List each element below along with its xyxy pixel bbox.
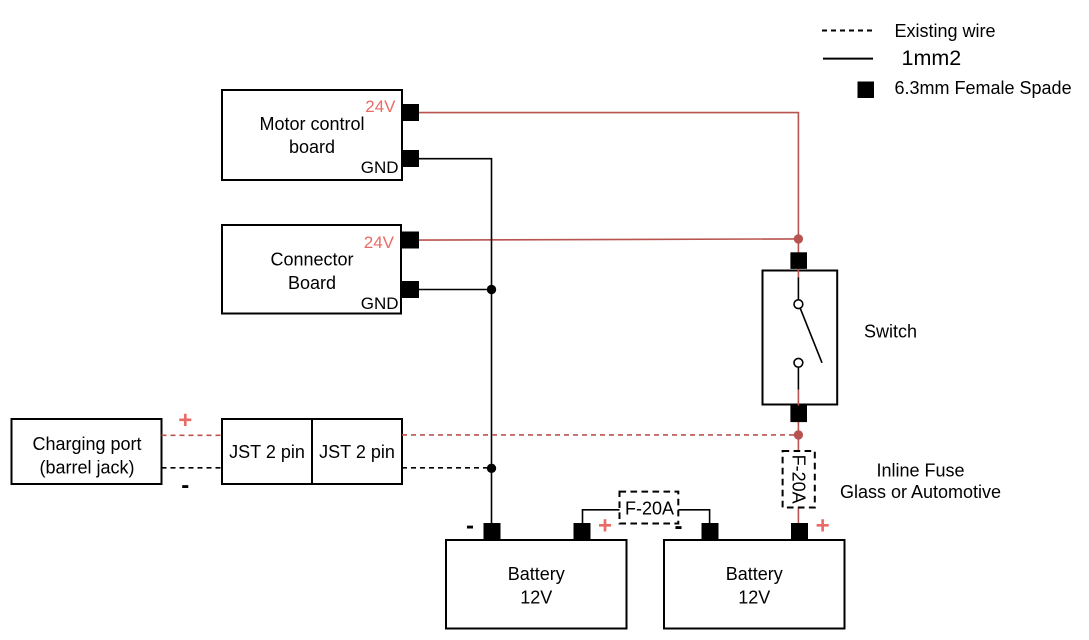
box Battery 2	[664, 540, 845, 629]
svg-text:Battery: Battery	[726, 564, 783, 584]
terminal battery1 plus (spade)	[574, 523, 591, 540]
svg-text:-: -	[675, 513, 683, 540]
svg-text:Battery: Battery	[508, 564, 565, 584]
box Switch	[763, 271, 838, 405]
svg-text:+: +	[598, 513, 612, 540]
box JST 2 pin (left)	[222, 419, 312, 484]
wire red switch to inline fuse	[797, 422, 799, 451]
pin 24V connector (spade)	[402, 232, 419, 249]
inline fuse F-20A (dashed, rotated)	[783, 451, 815, 508]
wire red dashed JST to switch bottom junction	[402, 434, 798, 436]
wire red out of switch bottom pin	[797, 390, 799, 423]
pin GND motor (spade)	[402, 150, 419, 167]
terminal battery2 minus (spade)	[702, 523, 719, 540]
fuse F-20A between batteries (dashed box)	[620, 492, 679, 524]
svg-text:-: -	[181, 472, 189, 499]
svg-text:F-20A: F-20A	[625, 499, 674, 519]
terminal battery1 minus (spade)	[484, 523, 501, 540]
wire red dashed charging to JST	[162, 434, 223, 436]
svg-text:JST 2 pin: JST 2 pin	[229, 442, 305, 462]
svg-text:JST 2 pin: JST 2 pin	[319, 442, 395, 462]
switch lead bottom	[797, 367, 799, 390]
wire red inline fuse to battery2 plus	[797, 508, 799, 524]
legend square (6.3mm Female Spade)	[858, 82, 875, 99]
wire black battery1 plus to fuse	[583, 510, 620, 523]
svg-text:(barrel jack): (barrel jack)	[39, 458, 134, 478]
svg-text:12V: 12V	[520, 588, 552, 608]
wire red into switch top pin	[797, 243, 799, 278]
svg-text:Inline Fuse: Inline Fuse	[876, 461, 964, 481]
wire black connector GND to junction	[419, 289, 492, 291]
junction node (red, switch top)	[794, 234, 803, 243]
wire black motor GND down	[419, 159, 492, 523]
svg-text:24V: 24V	[364, 233, 395, 252]
box Motor control board	[222, 90, 402, 180]
switch contact circle top	[794, 300, 803, 309]
svg-text:Board: Board	[288, 273, 336, 293]
wire black dashed charging to JST	[162, 467, 223, 469]
wire black dashed JST to GND junction	[402, 467, 492, 469]
svg-text:1mm2: 1mm2	[902, 46, 962, 70]
box JST 2 pin (right)	[312, 419, 402, 484]
svg-text:Existing wire: Existing wire	[895, 21, 996, 41]
terminal battery2 plus (spade)	[791, 523, 808, 540]
legend solid line (1mm2)	[823, 58, 873, 60]
switch contact circle bottom	[794, 358, 803, 367]
legend dashed line (Existing wire)	[822, 30, 872, 32]
pin switch top (spade)	[790, 252, 807, 269]
junction node (black, connector GND)	[487, 285, 496, 294]
svg-text:Connector: Connector	[270, 250, 353, 270]
svg-text:6.3mm Female Spade: 6.3mm Female Spade	[895, 78, 1072, 98]
svg-text:Charging port: Charging port	[32, 434, 141, 454]
svg-text:board: board	[289, 137, 335, 157]
svg-text:+: +	[178, 407, 192, 434]
junction node (red, switch bottom)	[794, 430, 803, 439]
wire red connector 24V to junction	[419, 239, 798, 240]
svg-text:12V: 12V	[738, 588, 770, 608]
wire black fuse to battery2 minus	[678, 510, 709, 523]
box Connector Board	[222, 225, 401, 314]
svg-text:Switch: Switch	[864, 322, 917, 342]
switch lead top	[797, 277, 799, 300]
wire red motor 24V to switch (horizontal+vertical)	[419, 113, 798, 239]
box Charging port (barrel jack)	[12, 419, 162, 484]
svg-text:+: +	[816, 513, 830, 540]
junction node (black, dashed meets GND line)	[487, 464, 496, 473]
svg-text:GND: GND	[361, 158, 399, 177]
svg-text:24V: 24V	[365, 97, 396, 116]
box Battery 1	[446, 540, 627, 629]
svg-text:-: -	[466, 513, 474, 540]
svg-text:Glass or Automotive: Glass or Automotive	[840, 482, 1001, 502]
svg-text:Motor control: Motor control	[259, 114, 364, 134]
switch blade	[800, 308, 822, 363]
svg-text:GND: GND	[361, 294, 399, 313]
pin GND connector (spade)	[402, 281, 419, 298]
pin switch bottom (spade)	[790, 406, 807, 423]
pin 24V motor (spade)	[402, 104, 419, 121]
svg-text:F-20A: F-20A	[788, 455, 808, 504]
